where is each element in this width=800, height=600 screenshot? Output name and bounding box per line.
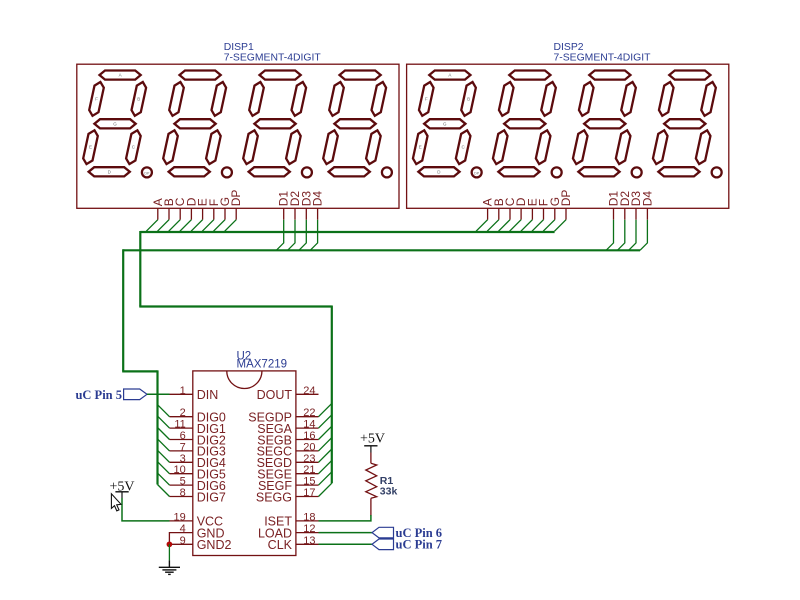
wire digit bus to U2 DIG2: [158, 428, 170, 440]
wire digit bus to U2 DIG1: [158, 416, 170, 428]
DISP1 pin D3 stub: [305, 208, 307, 219]
DISP2 pin E stub: [531, 208, 533, 219]
wire DISP1 pin E to segment bus: [191, 220, 203, 232]
svg-text:4: 4: [180, 523, 186, 535]
power +5V (left) pin: [121, 492, 123, 498]
svg-text:E: E: [89, 145, 92, 150]
svg-text:DOUT: DOUT: [257, 388, 293, 402]
svg-text:18: 18: [303, 511, 315, 523]
svg-text:uC Pin 5: uC Pin 5: [75, 388, 122, 402]
DISP1 digit 1: [83, 71, 152, 178]
svg-text:GND2: GND2: [197, 538, 232, 552]
U2 pin 8 (DIG7) stub: [170, 496, 193, 498]
U2 pin 6 (DIG2) stub: [170, 439, 193, 441]
wire DISP1 pin D1 to digit bus: [276, 220, 283, 251]
wire segment bus to U2 SEGG: [319, 483, 332, 496]
DISP2 pin D4 stub: [646, 208, 648, 219]
wire DISP1 pin B to segment bus: [158, 220, 170, 232]
DISP1 pin B stub: [168, 208, 170, 219]
wire DISP1 pin D2 to digit bus: [288, 220, 295, 251]
svg-text:11: 11: [174, 419, 185, 431]
power +5V (left) bar: [115, 491, 128, 493]
DISP2 pin A stub: [487, 208, 489, 219]
wire DISP1 pin G to segment bus: [214, 220, 226, 232]
wire digit bus to U2 DIG0: [158, 405, 170, 417]
wire DISP2 pin A to segment bus: [476, 220, 488, 232]
7-segment display DISP2 body: [407, 64, 729, 208]
wire DISP2 pin DP to segment bus: [555, 220, 567, 232]
DISP2 pin DP stub: [565, 208, 567, 219]
resistor R1 bottom lead: [370, 498, 372, 516]
svg-text:B: B: [467, 96, 470, 101]
wire segment bus to U2 SEGC: [319, 438, 332, 451]
DISP2 pin D stub: [520, 208, 522, 219]
svg-text:9: 9: [180, 535, 186, 547]
svg-text:19: 19: [174, 511, 186, 523]
DISP2 pin G stub: [554, 208, 556, 219]
svg-text:DIN: DIN: [197, 388, 219, 402]
wire DISP1 pin D4 to digit bus: [310, 220, 317, 251]
svg-text:+5V: +5V: [360, 432, 385, 447]
DISP1 pin C stub: [179, 208, 181, 219]
DISP1 pin D4 stub: [317, 208, 319, 219]
svg-text:G: G: [113, 121, 117, 126]
DISP2 digit 4: [653, 71, 722, 178]
power +5V (right) pin: [370, 446, 372, 453]
wire DISP2 pin C to segment bus: [499, 220, 511, 232]
U2 pin 9 (GND2) stub: [170, 543, 193, 545]
DISP1 pin D stub: [190, 208, 192, 219]
wire DISP2 pin D to segment bus: [510, 220, 521, 232]
svg-text:10: 10: [174, 464, 186, 476]
wire DISP2 pin E to segment bus: [521, 220, 533, 232]
U2 pin 1 (DIN) stub: [170, 393, 193, 395]
U2 pin 2 (DIG0) stub: [170, 416, 193, 418]
segment bus wire (left vertical drop): [139, 231, 141, 307]
svg-text:D4: D4: [311, 191, 325, 207]
svg-text:6: 6: [180, 430, 186, 442]
wire DISP1 pin DP to segment bus: [225, 220, 237, 232]
DISP1 pin E stub: [202, 208, 204, 219]
U2 pin 16 (SEGB) stub: [296, 439, 319, 441]
DISP1 digit 1 segment letters: [89, 73, 150, 176]
DISP1 digit 4: [323, 71, 392, 178]
DISP1 pin D2 stub: [294, 208, 296, 219]
U2 pin 5 (DIG6) stub: [170, 484, 193, 486]
DISP2 pin D3 stub: [635, 208, 637, 219]
svg-text:F: F: [95, 96, 98, 101]
svg-text:20: 20: [303, 441, 315, 453]
svg-text:12: 12: [303, 523, 315, 535]
svg-text:G: G: [443, 121, 447, 126]
resistor R1 zigzag: [366, 463, 377, 498]
wire DISP1 pin D3 to digit bus: [299, 220, 306, 251]
DISP2 digit 3: [573, 71, 642, 178]
svg-text:CLK: CLK: [268, 538, 293, 552]
U2 pin 18 (ISET) stub: [296, 520, 319, 522]
DISP1 pin A stub: [157, 208, 159, 219]
wire digit bus to U2 DIG5: [158, 462, 170, 474]
U2 pin 13 (CLK) stub: [296, 543, 319, 545]
wire DISP1 pin D to segment bus: [180, 220, 192, 232]
DISP2 pin D2 stub: [624, 208, 626, 219]
svg-text:13: 13: [303, 535, 315, 547]
terminal uC Pin 5: [124, 389, 147, 400]
DISP2 pin C stub: [509, 208, 511, 219]
svg-text:14: 14: [303, 419, 315, 431]
svg-text:16: 16: [303, 430, 315, 442]
DISP1 pin G stub: [224, 208, 226, 219]
svg-text:21: 21: [303, 464, 315, 476]
wire DISP2 pin D3 to digit bus: [629, 220, 636, 251]
digit bus wire (horizontal jog): [122, 370, 157, 372]
op-amp/driver IC U2 MAX7219 body: [193, 371, 296, 556]
power +5V (right) bar: [364, 445, 377, 447]
DISP1 digit 2: [163, 71, 232, 178]
wire U2 CLK to uC Pin 7: [319, 543, 373, 545]
svg-text:D4: D4: [640, 191, 654, 207]
wire segment bus to U2 SEGA: [319, 415, 332, 428]
terminal uC Pin 6: [372, 527, 394, 538]
wire digit bus to U2 DIG3: [158, 439, 170, 451]
U2 pin 3 (DIG4) stub: [170, 461, 193, 463]
svg-text:DP: DP: [229, 190, 243, 207]
svg-text:15: 15: [303, 476, 315, 488]
U2 pin 20 (SEGC) stub: [296, 450, 319, 452]
svg-text:8: 8: [180, 487, 186, 499]
wire segment bus to U2 SEGD: [319, 449, 332, 462]
svg-text:7: 7: [180, 441, 186, 453]
segment bus wire (vertical down right of U2): [331, 306, 333, 484]
U2 pin 21 (SEGE) stub: [296, 473, 319, 475]
wire DISP1 pin F to segment bus: [202, 220, 214, 232]
svg-text:22: 22: [303, 407, 315, 419]
resistor R1 top lead: [370, 453, 372, 464]
DISP2 pin B stub: [498, 208, 500, 219]
wire DISP2 pin D1 to digit bus: [606, 220, 613, 251]
svg-text:3: 3: [180, 453, 186, 465]
svg-text:5: 5: [180, 476, 186, 488]
wire DISP1 pin A to segment bus: [146, 220, 158, 232]
wire uC Pin 5 to U2 DIN: [147, 393, 170, 395]
svg-text:F: F: [425, 96, 428, 101]
U2 pin 10 (DIG5) stub: [170, 473, 193, 475]
wire U2 LOAD to uC Pin 6: [319, 532, 373, 534]
wire segment bus to U2 SEGB: [319, 426, 332, 439]
svg-text:E: E: [419, 145, 422, 150]
digit bus wire (left vertical drop): [122, 249, 124, 371]
wire segment bus to U2 SEGF: [319, 472, 332, 485]
mouse cursor: [111, 494, 121, 511]
svg-text:uC Pin 7: uC Pin 7: [396, 537, 443, 551]
U2 pin 23 (SEGD) stub: [296, 461, 319, 463]
wire DISP1 pin C to segment bus: [169, 220, 181, 232]
wire DISP2 pin D4 to digit bus: [640, 220, 647, 251]
DISP2 pin D1 stub: [613, 208, 615, 219]
wire junction to ground: [168, 544, 170, 560]
wire digit bus to U2 DIG6: [158, 473, 170, 485]
DISP1 pin DP stub: [235, 208, 237, 219]
wire U2 ISET to R1: [319, 515, 371, 521]
DISP1 pin F stub: [213, 208, 215, 219]
svg-text:MAX7219: MAX7219: [237, 359, 288, 371]
wire DISP2 pin D2 to digit bus: [617, 220, 624, 251]
DISP2 pin F stub: [543, 208, 545, 219]
svg-text:2: 2: [180, 407, 186, 419]
svg-text:DIG7: DIG7: [197, 490, 226, 504]
svg-text:7-SEGMENT-4DIGIT: 7-SEGMENT-4DIGIT: [554, 53, 652, 64]
digit bus wire (horizontal): [123, 249, 640, 251]
DISP1 digit 3: [243, 71, 312, 178]
svg-text:7-SEGMENT-4DIGIT: 7-SEGMENT-4DIGIT: [224, 53, 322, 64]
wire +5V to U2 VCC: [122, 498, 170, 521]
svg-text:23: 23: [303, 453, 315, 465]
U2 pin 7 (DIG3) stub: [170, 450, 193, 452]
wire DISP2 pin F to segment bus: [532, 220, 544, 232]
svg-text:1: 1: [180, 385, 186, 397]
digit bus wire (vertical past DIN to DIG pins): [156, 370, 158, 484]
ground symbol: [159, 560, 180, 574]
svg-text:A: A: [119, 73, 122, 78]
svg-text:33k: 33k: [380, 486, 398, 498]
DISP2 digit 2: [493, 71, 562, 178]
svg-text:A: A: [448, 73, 451, 78]
svg-text:DP: DP: [559, 190, 573, 207]
U2 pin 4 (GND) stub: [170, 532, 193, 534]
DISP1 pin D1 stub: [283, 208, 285, 219]
U2 pin 19 (VCC) stub: [170, 520, 193, 522]
segment bus wire (horizontal run to right): [139, 305, 331, 307]
U2 pin 17 (SEGG) stub: [296, 496, 319, 498]
wire DISP2 pin G to segment bus: [543, 220, 555, 232]
U2 pin 22 (SEGDP) stub: [296, 416, 319, 418]
junction GND/GND2: [167, 541, 173, 547]
U2 pin 24 (DOUT) stub: [296, 393, 319, 395]
U2 pin 14 (SEGA) stub: [296, 427, 319, 429]
U2 notch: [227, 371, 262, 389]
svg-text:DP: DP: [474, 172, 480, 176]
DISP2 digit 1: [413, 71, 482, 178]
segment bus wire (horizontal): [140, 231, 554, 233]
wire DISP2 pin B to segment bus: [487, 220, 499, 232]
terminal uC Pin 7: [372, 539, 394, 550]
U2 pin 11 (DIG1) stub: [170, 427, 193, 429]
wire segment bus to U2 SEGE: [319, 460, 332, 473]
wire segment bus to U2 SEGDP: [319, 403, 332, 416]
wire digit bus to U2 DIG7: [158, 485, 170, 497]
svg-text:DP: DP: [144, 172, 150, 176]
wire digit bus to U2 DIG4: [158, 450, 170, 462]
svg-text:SEGG: SEGG: [256, 490, 292, 504]
wire U2 GND down to GND2: [168, 533, 170, 545]
7-segment display DISP1 body: [77, 64, 399, 208]
svg-text:24: 24: [303, 385, 315, 397]
svg-text:17: 17: [303, 487, 315, 499]
U2 pin 15 (SEGF) stub: [296, 484, 319, 486]
svg-text:B: B: [137, 96, 140, 101]
DISP2 digit 1 segment letters: [419, 73, 480, 176]
U2 pin 12 (LOAD) stub: [296, 532, 319, 534]
